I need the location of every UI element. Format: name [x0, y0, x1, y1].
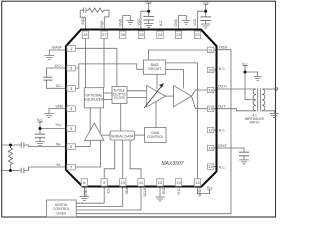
svg-text:GND: GND [174, 18, 178, 26]
svg-text:12: 12 [158, 180, 163, 185]
svg-text:EQ1: EQ1 [81, 18, 85, 25]
svg-text:LINES: LINES [56, 212, 67, 216]
svg-text:BIASF: BIASF [52, 46, 62, 50]
svg-text:VCC: VCC [193, 18, 197, 26]
svg-text:MAX3507: MAX3507 [162, 161, 184, 167]
svg-text:SERIAL DATA: SERIAL DATA [111, 134, 134, 138]
svg-text:CS: CS [106, 188, 110, 193]
svg-text:27: 27 [102, 32, 107, 37]
svg-text:RATIO: RATIO [250, 121, 260, 125]
svg-text:GND: GND [162, 186, 166, 194]
svg-text:N.C.: N.C. [159, 19, 163, 26]
svg-text:VCC: VCC [137, 18, 141, 26]
svg-text:VCC: VCC [203, 1, 209, 6]
svg-text:DIGITAL: DIGITAL [55, 203, 68, 207]
svg-text:CONTROL: CONTROL [53, 207, 70, 211]
svg-text:13: 13 [176, 180, 181, 185]
svg-text:23: 23 [176, 32, 181, 37]
svg-text:GND: GND [84, 188, 88, 196]
svg-text:VCC: VCC [55, 122, 61, 127]
svg-text:19: 19 [208, 88, 213, 93]
svg-text:26: 26 [120, 32, 125, 37]
svg-text:N.C.: N.C. [177, 188, 181, 195]
svg-text:TXEN: TXEN [218, 45, 228, 49]
svg-text:DC-: DC- [56, 84, 62, 88]
svg-text:IN+: IN+ [56, 142, 61, 146]
svg-text:GND: GND [55, 104, 63, 108]
svg-text:10: 10 [120, 180, 125, 185]
svg-text:VCC: VCC [146, 0, 152, 4]
svg-text:CIRCUIT: CIRCUIT [148, 67, 162, 71]
svg-text:CEXT: CEXT [218, 144, 227, 148]
svg-text:20: 20 [208, 68, 213, 73]
svg-text:FILTER: FILTER [114, 96, 125, 100]
svg-text:OUT-: OUT- [218, 104, 226, 108]
svg-text:VCC: VCC [207, 186, 213, 191]
svg-text:DC+: DC+ [55, 64, 62, 68]
svg-text:18: 18 [208, 106, 213, 111]
svg-text:CONTROL: CONTROL [147, 135, 164, 139]
svg-text:SHDN: SHDN [198, 187, 202, 197]
svg-text:EQ2: EQ2 [100, 21, 104, 28]
svg-text:GND: GND [118, 18, 122, 26]
svg-text:VCC: VCC [242, 62, 248, 67]
svg-text:15: 15 [208, 164, 213, 169]
svg-text:IN-: IN- [56, 163, 61, 167]
svg-text:22: 22 [195, 32, 200, 37]
svg-text:14: 14 [195, 180, 200, 185]
svg-text:EQUALIZER: EQUALIZER [84, 98, 104, 102]
svg-text:OUT+: OUT+ [218, 85, 227, 89]
svg-text:24: 24 [158, 32, 163, 37]
svg-text:21: 21 [208, 47, 213, 52]
svg-text:16: 16 [208, 146, 213, 151]
svg-text:N.C.: N.C. [219, 67, 226, 71]
svg-text:25: 25 [139, 32, 144, 37]
svg-text:N.C.: N.C. [219, 165, 226, 169]
svg-text:17: 17 [208, 128, 213, 133]
svg-text:N.C.: N.C. [219, 129, 226, 133]
svg-text:SCLK: SCLK [143, 187, 147, 197]
svg-text:SDA: SDA [125, 187, 129, 195]
svg-text:28: 28 [83, 32, 88, 37]
svg-text:VCC: VCC [37, 118, 43, 123]
